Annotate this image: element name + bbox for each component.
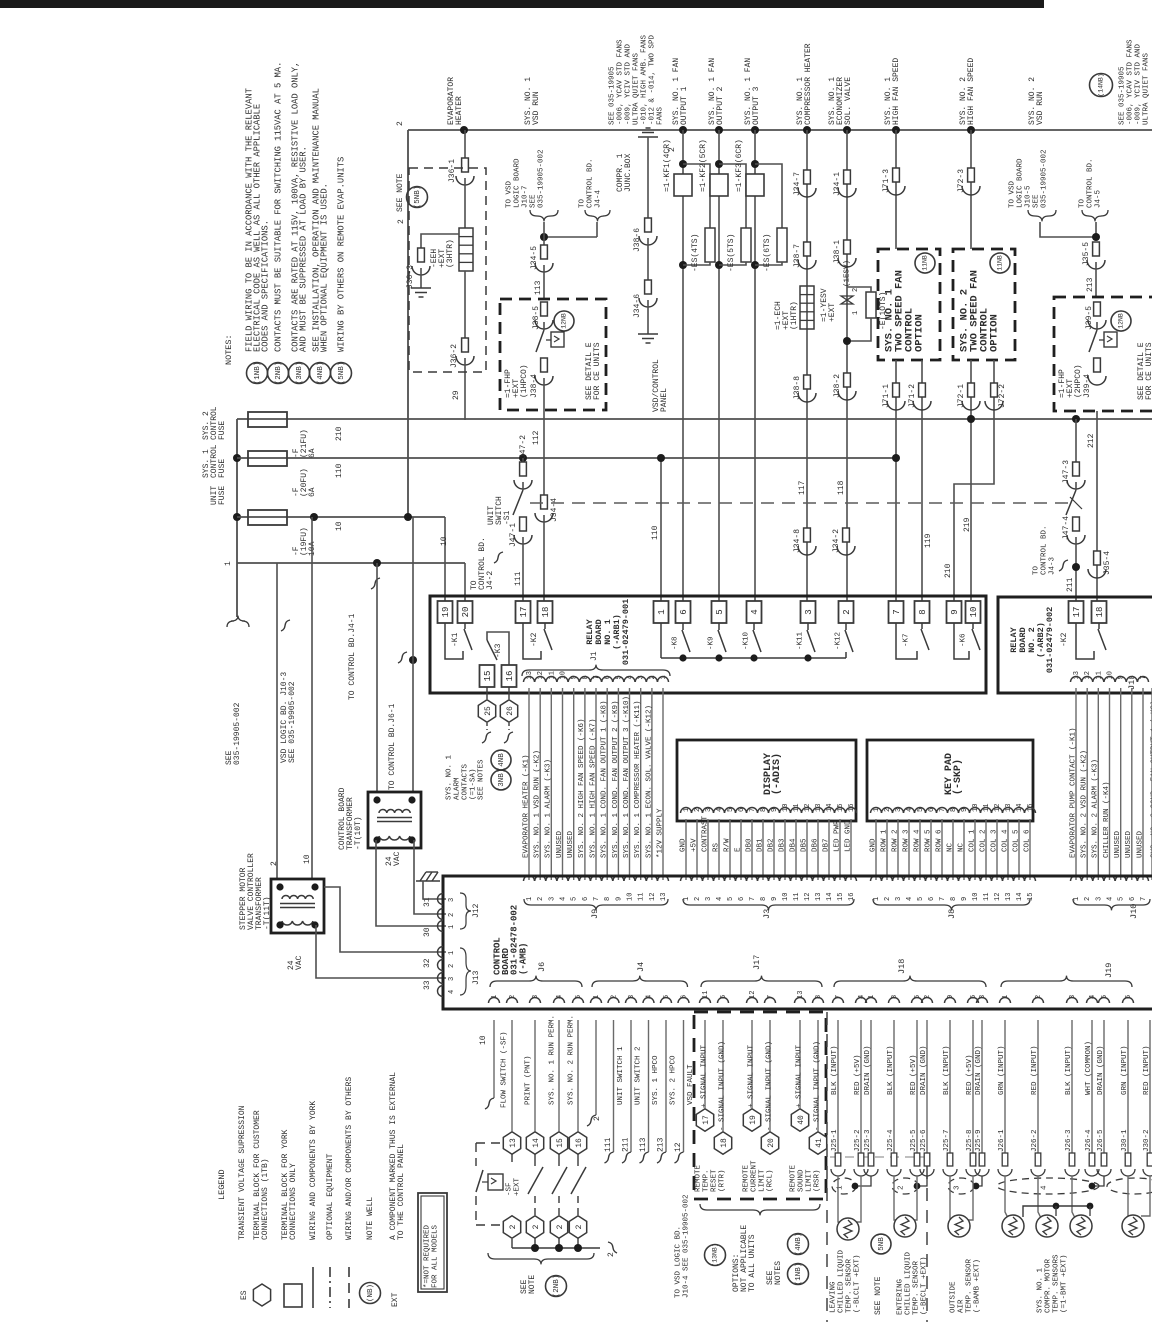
svg-text:EVAPORATOR HEATER (-K1): EVAPORATOR HEATER (-K1) xyxy=(522,754,530,858)
svg-text:12: 12 xyxy=(994,893,1002,901)
wire J6-1 line 10 xyxy=(493,1020,495,1098)
sensor wire J26-1 xyxy=(1004,1020,1006,1153)
terminal 3 board1 xyxy=(801,601,816,623)
svg-text:(-AMB): (-AMB) xyxy=(518,943,528,975)
connector J38-5 xyxy=(541,302,548,316)
svg-text:7: 7 xyxy=(1140,897,1148,901)
svg-text:OUTPUT 3: OUTPUT 3 xyxy=(752,86,761,125)
box detail E CE units sys1 xyxy=(500,299,606,410)
svg-text:2: 2 xyxy=(532,1224,541,1229)
svg-text:J4-4: J4-4 xyxy=(594,189,602,208)
junction on bus x=755 xyxy=(751,126,759,134)
svg-text:-T(11T): -T(11T) xyxy=(263,896,272,930)
svg-text:14: 14 xyxy=(532,1138,541,1148)
svg-text:REMOTE: REMOTE xyxy=(694,1164,702,1192)
svg-text:16: 16 xyxy=(575,1138,584,1148)
svg-text:10: 10 xyxy=(303,854,312,864)
wire 29 evaporator heater branch xyxy=(464,130,466,158)
svg-text:EVAPORATOR PUMP CONTACT (-K1): EVAPORATOR PUMP CONTACT (-K1) xyxy=(1069,727,1077,858)
svg-text:SYS. NO. 2 RUN PERM.: SYS. NO. 2 RUN PERM. xyxy=(567,1015,575,1105)
svg-text:J25-3: J25-3 xyxy=(864,1129,872,1152)
svg-text:(RTR): (RTR) xyxy=(718,1169,726,1192)
relay contact -K2 board2 xyxy=(1076,623,1094,659)
svg-text:10: 10 xyxy=(440,536,449,546)
svg-text:10: 10 xyxy=(969,607,979,618)
starred note box xyxy=(418,1193,447,1292)
note circle 13NB xyxy=(705,1245,726,1266)
legend dash-dot line xyxy=(329,1267,331,1308)
offpage braces right xyxy=(1028,210,1056,221)
svg-text:COL 4: COL 4 xyxy=(1001,829,1009,852)
svg-text:HIGH FAN SPEED: HIGH FAN SPEED xyxy=(892,58,901,125)
wire J38-6 chain xyxy=(647,137,649,218)
connector J34-8 xyxy=(804,528,811,542)
svg-text:2: 2 xyxy=(448,913,456,917)
svg-text:2: 2 xyxy=(537,897,545,901)
relay contact -K6 xyxy=(954,623,969,659)
svg-text:VSD RUN: VSD RUN xyxy=(1036,91,1045,125)
svg-text:GND: GND xyxy=(679,838,687,852)
svg-text:J26-3: J26-3 xyxy=(1065,1129,1073,1152)
svg-text:4: 4 xyxy=(750,609,760,614)
svg-text:5: 5 xyxy=(727,897,735,901)
fuse rail xyxy=(236,419,238,617)
svg-text:118: 118 xyxy=(837,480,846,495)
connector J34-5 xyxy=(541,245,548,259)
svg-text:RS: RS xyxy=(712,842,720,852)
svg-text:J8: J8 xyxy=(947,909,957,919)
svg-text:6: 6 xyxy=(582,897,590,901)
svg-text:41: 41 xyxy=(815,1138,824,1148)
svg-text:7: 7 xyxy=(892,609,902,614)
svg-text:J26-1: J26-1 xyxy=(998,1129,1006,1152)
heater =1-ECH (1HTR) xyxy=(800,286,814,329)
keypad module xyxy=(867,740,1033,821)
junction on bus x=847 xyxy=(843,126,851,134)
svg-text:J30-1: J30-1 xyxy=(1121,1129,1129,1152)
svg-text:*=NOT REQUIRED: *=NOT REQUIRED xyxy=(423,1224,431,1288)
connector J39-4 xyxy=(1094,358,1101,372)
svg-text:J34-4: J34-4 xyxy=(550,498,559,522)
flow switch paddle box xyxy=(488,1174,503,1190)
svg-text:TEMP.: TEMP. xyxy=(702,1169,710,1192)
ground vsd control panel xyxy=(638,334,658,343)
svg-text:HEATER: HEATER xyxy=(455,96,464,125)
svg-text:-006, YCAV STD FANS: -006, YCAV STD FANS xyxy=(1126,39,1134,125)
wire J72-2 line 219 xyxy=(954,360,994,601)
svg-text:-S1: -S1 xyxy=(503,510,512,525)
svg-text:219: 219 xyxy=(963,517,972,532)
connector J36-1 xyxy=(462,158,469,172)
svg-text:035-19905-002: 035-19905-002 xyxy=(1040,149,1048,208)
svg-text:J4: J4 xyxy=(636,962,646,972)
svg-text:(14NB): (14NB) xyxy=(1098,73,1105,96)
svg-text:(11NB): (11NB) xyxy=(922,251,929,274)
svg-text:-006, YCAV STD FANS: -006, YCAV STD FANS xyxy=(616,39,624,125)
svg-text:J71-2: J71-2 xyxy=(908,384,917,408)
svg-text:DB3: DB3 xyxy=(778,838,786,852)
svg-text:WHEN OPTIONAL EQUIPMENT IS USE: WHEN OPTIONAL EQUIPMENT IS USED. xyxy=(319,183,329,352)
svg-text:E: E xyxy=(734,847,742,852)
junction line 113 xyxy=(540,233,548,241)
note circle 12NB box1 xyxy=(554,311,574,331)
svg-text:25: 25 xyxy=(484,706,493,716)
svg-text:2: 2 xyxy=(607,1252,616,1257)
svg-text:UNUSED: UNUSED xyxy=(1125,830,1133,858)
svg-text:SEE 035-19905: SEE 035-19905 xyxy=(1118,66,1126,125)
svg-text:+ SIGNAL INPUT: + SIGNAL INPUT xyxy=(700,1044,708,1108)
wire transformer to J12-2 xyxy=(414,840,446,914)
wire line 2 top bus xyxy=(408,129,1152,131)
svg-text:10: 10 xyxy=(479,1035,488,1045)
svg-text:211: 211 xyxy=(621,1137,630,1152)
option gnd hex 20 xyxy=(769,1020,771,1131)
connector J34-4 xyxy=(541,495,548,509)
terminal 16 board1 xyxy=(502,665,517,687)
svg-text:AND MUST BE SUPPRESSED AT LOAD: AND MUST BE SUPPRESSED AT LOAD BY USER. xyxy=(298,146,308,352)
svg-text:J17: J17 xyxy=(752,955,762,970)
svg-text:UNIT SWITCH 1: UNIT SWITCH 1 xyxy=(617,1046,625,1105)
svg-text:213: 213 xyxy=(656,1137,665,1152)
svg-text:3: 3 xyxy=(548,897,556,901)
note circle 2NB bottom xyxy=(546,1276,567,1297)
note circle 4NB alarm xyxy=(491,750,511,770)
svg-text:2: 2 xyxy=(556,1224,565,1229)
svg-text:J34-2: J34-2 xyxy=(832,529,841,553)
svg-text:NOTE WELL: NOTE WELL xyxy=(366,1197,375,1240)
svg-text:J4-2: J4-2 xyxy=(486,571,495,590)
wire J4 SYS. 1 HPCO xyxy=(648,1020,650,1152)
junction on bus x=896 xyxy=(892,126,900,134)
svg-text:TEMP. SENSOR: TEMP. SENSOR xyxy=(845,1258,853,1313)
svg-text:WIRING BY OTHERS ON REMOTE EVA: WIRING BY OTHERS ON REMOTE EVAP.UNITS xyxy=(336,157,346,352)
svg-text:LED GND: LED GND xyxy=(844,820,852,852)
note circle 12NB box2 xyxy=(1111,311,1131,331)
sensor outside air xyxy=(950,1176,954,1220)
svg-text:J25-8: J25-8 xyxy=(966,1129,974,1152)
svg-text:-009, YCIV STD AND: -009, YCIV STD AND xyxy=(624,43,632,125)
svg-text:031-02479-001: 031-02479-001 xyxy=(621,599,631,665)
svg-text:111: 111 xyxy=(514,571,523,586)
svg-text:110: 110 xyxy=(651,525,660,540)
svg-text:J38-7: J38-7 xyxy=(793,244,802,268)
svg-text:119: 119 xyxy=(924,533,933,548)
svg-text:12: 12 xyxy=(674,1142,683,1152)
svg-text:-010, HIGH AMB. FANS: -010, HIGH AMB. FANS xyxy=(640,34,648,125)
svg-text:-ES(5TS): -ES(5TS) xyxy=(727,234,736,272)
svg-text:J25-6: J25-6 xyxy=(920,1129,928,1152)
fuse 21FU sys2 control fuse xyxy=(248,412,287,427)
svg-text:J72-3: J72-3 xyxy=(957,169,966,193)
terminal 18 board2 xyxy=(1092,601,1107,623)
svg-text:COL 1: COL 1 xyxy=(968,829,976,852)
ground compr junc box (inverted) xyxy=(638,128,658,137)
svg-text:DRAIN (GND): DRAIN (GND) xyxy=(920,1045,928,1095)
svg-text:DB6: DB6 xyxy=(811,838,819,852)
svg-text:(2NB): (2NB) xyxy=(553,1275,561,1298)
svg-text:4: 4 xyxy=(560,897,568,901)
svg-text:+ SIGNAL INPUT: + SIGNAL INPUT xyxy=(795,1044,803,1108)
svg-text:HIGH FAN SPEED: HIGH FAN SPEED xyxy=(967,58,976,125)
svg-text:CURRENT: CURRENT xyxy=(750,1160,758,1192)
connector J71-1 xyxy=(893,383,900,397)
svg-text:J26-5: J26-5 xyxy=(1097,1129,1105,1152)
svg-text:-K9: -K9 xyxy=(707,636,715,650)
sensor wire J25-7 xyxy=(949,1020,951,1153)
svg-text:SYS. NO. 1 COND. FAN OUTPUT 1: SYS. NO. 1 COND. FAN OUTPUT 1 (-K8) xyxy=(601,700,609,858)
svg-text:AIR: AIR xyxy=(957,1299,965,1313)
svg-text:8: 8 xyxy=(918,609,928,614)
svg-text:SEE NOTE: SEE NOTE xyxy=(874,1276,883,1315)
svg-text:211: 211 xyxy=(1066,577,1075,592)
wire to relay terminal 20 xyxy=(464,563,466,601)
wire 112 xyxy=(543,378,545,495)
svg-text:J34-1: J34-1 xyxy=(833,172,842,196)
svg-text:1: 1 xyxy=(873,897,881,901)
terminal 18 board1 xyxy=(538,601,553,623)
svg-text:TO THE CONTROL PANEL: TO THE CONTROL PANEL xyxy=(397,1144,406,1240)
terminal 17 board1 xyxy=(516,601,531,623)
junction on bus x=464 xyxy=(460,126,468,134)
svg-text:J38-5: J38-5 xyxy=(532,306,541,330)
svg-text:18: 18 xyxy=(541,607,551,618)
junction on wire 10 drop xyxy=(409,656,417,664)
svg-text:117: 117 xyxy=(798,480,807,495)
connector J39-5 xyxy=(1094,302,1101,316)
display module xyxy=(677,740,856,821)
svg-text:COMPRESSOR HEATER: COMPRESSOR HEATER xyxy=(804,43,813,125)
svg-text:J6: J6 xyxy=(537,962,547,972)
flow switch chain xyxy=(511,1020,513,1131)
svg-text:(3HTR): (3HTR) xyxy=(446,239,455,268)
svg-text:J38-2: J38-2 xyxy=(833,374,842,398)
wire stepper to J13-1 xyxy=(324,887,446,952)
svg-text:(1HPCO): (1HPCO) xyxy=(520,364,529,398)
svg-text:+ SIGNAL INPUT: + SIGNAL INPUT xyxy=(747,1044,755,1108)
control board xyxy=(443,876,1152,1009)
sensor wire J25-2 xyxy=(860,1020,862,1153)
svg-text:RESET: RESET xyxy=(710,1169,718,1192)
svg-text:SYS. NO. 1 ECON. SOL. VALVE (-: SYS. NO. 1 ECON. SOL. VALVE (-K12) xyxy=(645,705,653,858)
svg-text:15: 15 xyxy=(1027,893,1035,901)
note circle 4NB options xyxy=(788,1234,809,1255)
hex terminal 2 a xyxy=(503,1216,520,1238)
svg-text:SEE: SEE xyxy=(1032,194,1040,208)
wire J72-1 xyxy=(970,360,972,601)
svg-text:-K2: -K2 xyxy=(530,632,539,647)
svg-text:(1ESV): (1ESV) xyxy=(843,260,851,287)
svg-text:ALARM: ALARM xyxy=(453,777,461,800)
svg-text:UNUSED: UNUSED xyxy=(1114,830,1122,858)
svg-text:8: 8 xyxy=(950,897,958,901)
svg-text:J39-4: J39-4 xyxy=(1083,374,1092,398)
dashed wire to flow switch xyxy=(476,1142,501,1144)
svg-text:SYS. NO. 1 COND. FAN OUTPUT 3: SYS. NO. 1 COND. FAN OUTPUT 3 (-K10) xyxy=(623,696,631,858)
terminal 1 board1 xyxy=(654,601,669,623)
svg-text:(-ADIS): (-ADIS) xyxy=(771,753,783,795)
svg-text:5: 5 xyxy=(917,897,925,901)
shield drain 1 xyxy=(832,1178,856,1194)
svg-text:2: 2 xyxy=(575,1224,584,1229)
svg-text:DB0: DB0 xyxy=(745,838,753,852)
alarm contact hexagons 25 26 xyxy=(486,687,488,699)
svg-text:DRAIN (GND): DRAIN (GND) xyxy=(975,1045,983,1095)
contactor coil =1-KF2(5CR) with suppressor -ES(5TS) xyxy=(718,130,720,601)
shield 1 leaving sensor xyxy=(856,1176,871,1186)
wire line 2 bottom common xyxy=(511,1239,513,1248)
connector J36-2 xyxy=(462,338,469,352)
wire J71-1 to relay xyxy=(895,360,897,601)
svg-text:SYS. NO. 2 VSD RUN (-K2): SYS. NO. 2 VSD RUN (-K2) xyxy=(1081,750,1089,858)
svg-text:(4NB): (4NB) xyxy=(317,362,325,385)
svg-text:(12NB): (12NB) xyxy=(1118,309,1125,332)
svg-text:J4-5: J4-5 xyxy=(1094,189,1102,208)
svg-text:J47-1: J47-1 xyxy=(509,523,518,547)
relay board no 2 xyxy=(998,597,1152,693)
brace J8 xyxy=(873,899,1030,910)
svg-text:11: 11 xyxy=(983,893,991,901)
box SEE DETAIL E sys 1 xyxy=(530,210,558,221)
switch blade 2HPCO xyxy=(1089,330,1097,352)
wire 10 to stepper transformer xyxy=(311,517,313,879)
svg-text:J38-8: J38-8 xyxy=(793,376,802,400)
svg-text:13: 13 xyxy=(660,893,668,901)
svg-text:(-BAMB +EXT): (-BAMB +EXT) xyxy=(973,1259,981,1313)
stepper motor valve controller transformer -T(11T) xyxy=(271,879,324,933)
hex terminal 25 xyxy=(478,700,495,722)
svg-text:SOUND: SOUND xyxy=(797,1169,805,1192)
note circle 11NB box2 xyxy=(990,253,1010,273)
svg-text:FOR CE UNITS: FOR CE UNITS xyxy=(593,342,602,400)
svg-text:J4-3: J4-3 xyxy=(1048,556,1056,575)
svg-text:4: 4 xyxy=(1040,1185,1048,1190)
svg-text:(4NB): (4NB) xyxy=(498,749,506,772)
svg-text:33: 33 xyxy=(423,980,432,990)
shield drain 2 xyxy=(892,1178,918,1194)
svg-text:NC: NC xyxy=(957,842,965,852)
wire stepper to J13-3 xyxy=(316,925,446,978)
box detail E CE units sys2 xyxy=(1054,297,1152,411)
svg-text:2: 2 xyxy=(593,1116,602,1121)
svg-text:J72-2: J72-2 xyxy=(998,384,1007,408)
svg-text:-012 & -014, TWO SPD: -012 & -014, TWO SPD xyxy=(648,34,656,125)
pressure switch flag xyxy=(551,332,564,347)
junction on bus x=971 xyxy=(967,126,975,134)
sensor wire J25-6 xyxy=(926,1020,928,1153)
svg-text:(5NB): (5NB) xyxy=(338,362,346,385)
junction on bus x=683 xyxy=(679,126,687,134)
svg-text:FLOW SWITCH (-SF): FLOW SWITCH (-SF) xyxy=(500,1031,508,1108)
svg-text:-K3: -K3 xyxy=(494,643,503,658)
wire 1 to control transformer xyxy=(376,563,378,792)
relay board no 1 xyxy=(430,596,986,693)
svg-text:20: 20 xyxy=(767,1138,776,1148)
options box dashed xyxy=(694,1012,826,1199)
svg-text:SYS. NO. 2 HIGH FAN SPEED (-K6: SYS. NO. 2 HIGH FAN SPEED (-K6) xyxy=(578,718,586,858)
junction line 213 xyxy=(1092,233,1100,241)
svg-text:NC: NC xyxy=(946,842,954,852)
option input hex 40 xyxy=(799,1020,801,1108)
svg-text:J25-9: J25-9 xyxy=(975,1129,983,1152)
svg-text:SEE: SEE xyxy=(529,194,537,208)
svg-text:035-19905-002: 035-19905-002 xyxy=(233,702,242,765)
sensor wire J25-1 xyxy=(837,1020,839,1153)
svg-text:J35-5: J35-5 xyxy=(1082,242,1091,266)
connector J47-4 xyxy=(1073,517,1080,531)
svg-text:15: 15 xyxy=(483,671,493,682)
svg-text:ULTRA QUIET FANS: ULTRA QUIET FANS xyxy=(1142,52,1150,125)
connector J34-7 xyxy=(804,170,811,184)
svg-text:(-BLCLT +EXT): (-BLCLT +EXT) xyxy=(853,1254,861,1313)
svg-text:RED (+5V): RED (+5V) xyxy=(910,1054,918,1095)
offpage squiggle vsd logic xyxy=(281,620,290,631)
svg-text:11: 11 xyxy=(638,893,646,901)
svg-text:5: 5 xyxy=(571,897,579,901)
box SYS NO1 TWO SPEED FAN CONTROL OPTION xyxy=(878,249,940,360)
shield 4 motor temp sensors xyxy=(1093,1176,1104,1186)
svg-text:J39-5: J39-5 xyxy=(1085,306,1094,330)
legend NB circle xyxy=(360,1283,381,1304)
svg-text:J47-4: J47-4 xyxy=(1062,516,1071,540)
svg-text:-SF: -SF xyxy=(505,1182,513,1196)
brace J10 xyxy=(1073,899,1150,910)
svg-text:DRAIN (GND): DRAIN (GND) xyxy=(1097,1045,1105,1095)
offpage squiggle J4-1 xyxy=(371,578,380,589)
shield 5 partial right xyxy=(1107,1178,1152,1194)
svg-text:17: 17 xyxy=(1072,607,1082,618)
svg-text:1: 1 xyxy=(852,311,860,315)
pressure switch flag 2 xyxy=(1104,332,1117,347)
svg-text:17: 17 xyxy=(519,607,529,618)
sensor wire J26-5 xyxy=(1103,1020,1105,1153)
svg-text:14: 14 xyxy=(826,893,834,901)
svg-text:SYS. NO. 1 ALARM (-K3): SYS. NO. 1 ALARM (-K3) xyxy=(545,759,553,858)
wire line 2 drop to fuse block xyxy=(407,130,409,517)
svg-text:ROW 1: ROW 1 xyxy=(880,829,888,852)
note circle 1NB xyxy=(247,363,268,384)
svg-text:NOTES: NOTES xyxy=(774,1261,783,1285)
svg-text:16: 16 xyxy=(848,893,856,901)
svg-text:9: 9 xyxy=(615,897,623,901)
svg-text:J71-1: J71-1 xyxy=(882,384,891,408)
svg-text:2: 2 xyxy=(1084,897,1092,901)
svg-text:10: 10 xyxy=(335,521,344,531)
svg-text:BLK (INPUT): BLK (INPUT) xyxy=(1065,1045,1073,1095)
svg-text:J9: J9 xyxy=(590,909,600,919)
legend dashed line xyxy=(348,1267,350,1308)
brace options to vsd logic xyxy=(700,1204,820,1215)
sensors sys1 compr motor temp xyxy=(1005,1176,1008,1218)
shield 3 outside air sensor xyxy=(977,1176,982,1186)
svg-text:13: 13 xyxy=(509,1138,518,1148)
svg-text:FANS: FANS xyxy=(656,106,664,125)
svg-text:- SIGNAL INPUT (GND): - SIGNAL INPUT (GND) xyxy=(765,1041,773,1131)
svg-text:CHILLED LIQUID: CHILLED LIQUID xyxy=(904,1251,912,1315)
shield 2 entering sensor xyxy=(918,1176,927,1186)
svg-text:TO VSD: TO VSD xyxy=(505,180,513,208)
connector J35-4 xyxy=(1094,551,1101,565)
svg-text:NOTE: NOTE xyxy=(528,1275,537,1294)
svg-text:WIRING AND COMPONENTS BY YORK: WIRING AND COMPONENTS BY YORK xyxy=(309,1101,318,1240)
wire 10 unit fuse line xyxy=(237,516,445,518)
svg-text:J25-2: J25-2 xyxy=(854,1129,862,1152)
svg-text:15: 15 xyxy=(556,1138,565,1148)
svg-text:J35-4: J35-4 xyxy=(1103,551,1112,575)
connector J38-2 xyxy=(844,373,851,387)
svg-text:SYS. NO. 1 RUN PERM.: SYS. NO. 1 RUN PERM. xyxy=(548,1015,556,1105)
svg-text:1: 1 xyxy=(1073,897,1081,901)
svg-text:- SIGNAL INPUT (GND): - SIGNAL INPUT (GND) xyxy=(718,1041,726,1131)
